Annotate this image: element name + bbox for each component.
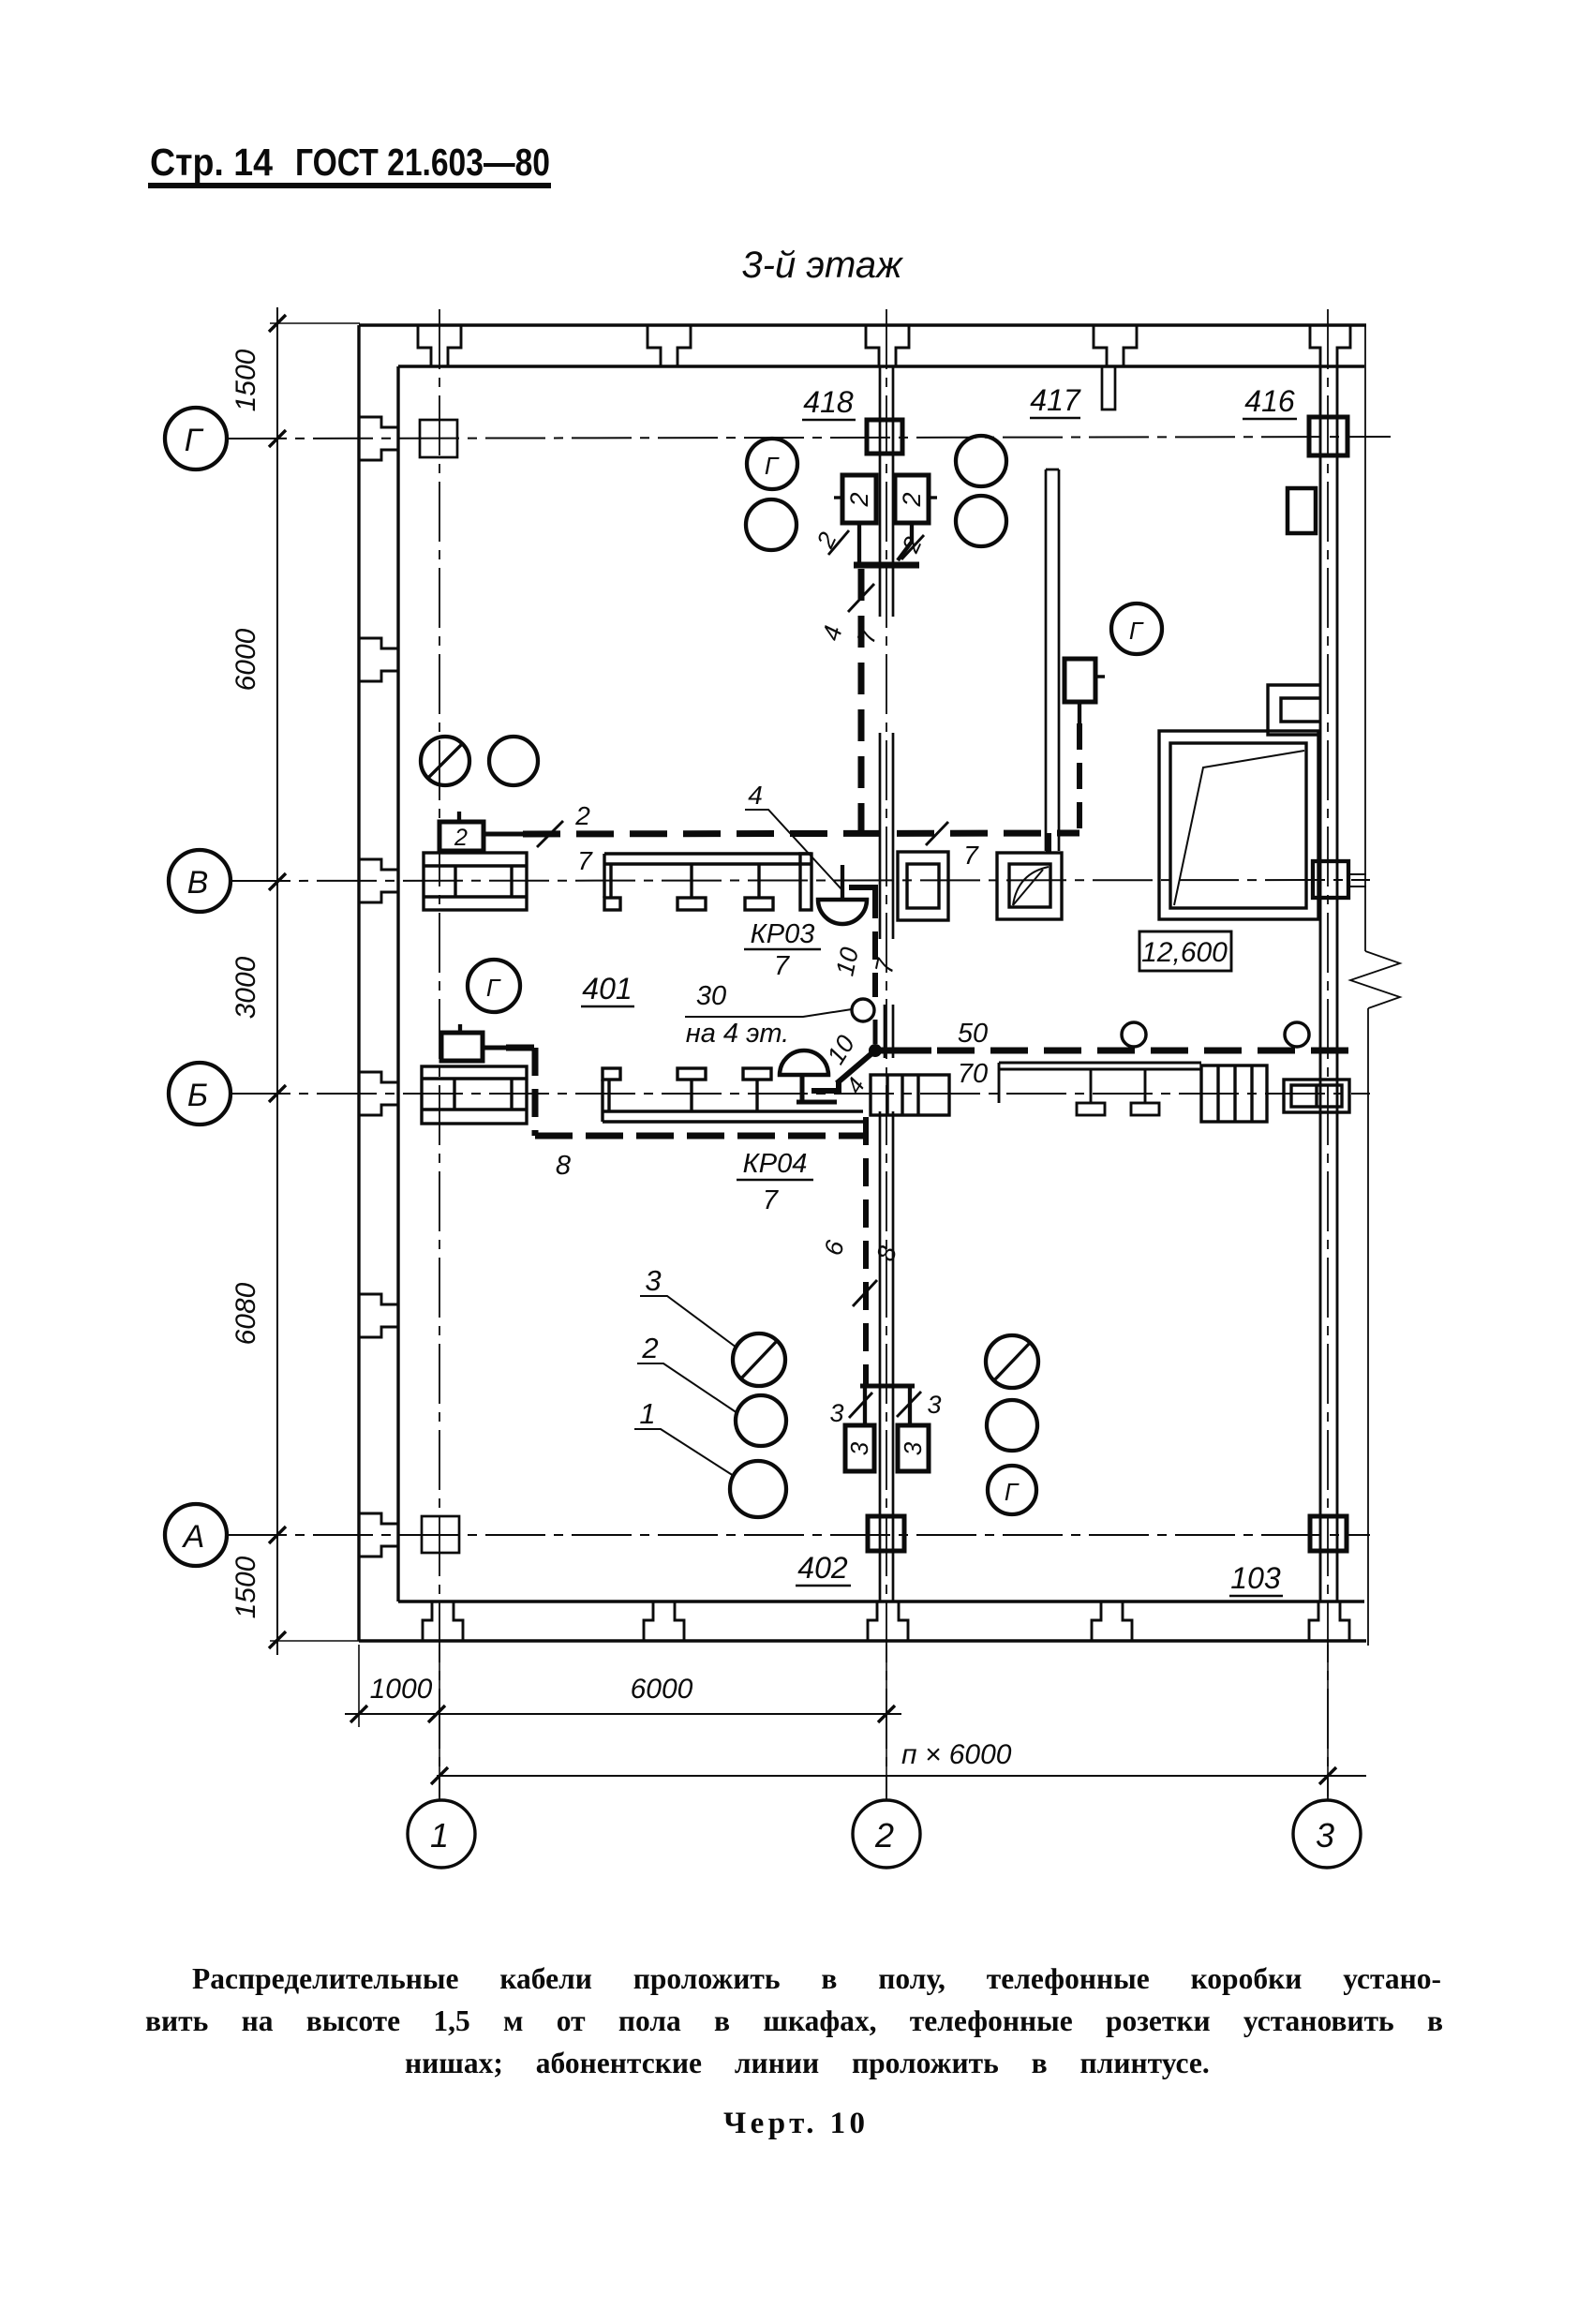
room 402 crossed lamp [986,1335,1038,1388]
axis circle Б [169,1063,231,1125]
svg-text:50: 50 [958,1019,988,1049]
svg-text:А: А [182,1519,205,1555]
svg-text:КР03: КР03 [751,919,815,949]
svg-text:8: 8 [556,1151,571,1181]
phone box 2 left of riser [834,475,876,523]
niche above elevator room [1268,685,1320,735]
svg-text:7: 7 [763,1185,780,1215]
axis circle 3 [1293,1800,1361,1868]
radiator at Б axis room 401 [422,1066,527,1124]
open circles on cable 50 [1122,1022,1146,1047]
svg-text:ГОСТ 21.603—80: ГОСТ 21.603—80 [295,141,550,184]
svg-text:2: 2 [874,1816,894,1855]
axis circle Г [165,408,227,469]
svg-text:4: 4 [841,1073,871,1098]
room 418 lamp circle [746,499,796,550]
svg-text:7: 7 [577,846,593,875]
svg-text:на 4 эт.: на 4 эт. [686,1019,789,1049]
svg-text:3: 3 [927,1391,941,1419]
radiator at Б axis3 [1284,1080,1349,1112]
cable 6 dashed down to 402 [863,1117,869,1384]
grid line 2 [886,309,887,1799]
wall on axis 2 [880,366,893,1601]
header bar joining leads [854,562,919,569]
svg-text:Г: Г [765,452,780,480]
radiator at Б right of axis2 [871,1075,949,1115]
column box axis3-В [1313,861,1366,898]
cable 2 horizontal dashed [523,833,1079,834]
svg-text:Б: Б [187,1078,208,1113]
svg-text:2: 2 [811,528,842,553]
bottom wall window piers [423,1601,1349,1641]
connection box КР03 dome [818,865,867,924]
svg-text:В: В [187,865,209,901]
stub drop to window niche [1046,833,1051,853]
svg-text:Г: Г [185,423,204,458]
right section cut line with break [1350,325,1400,1646]
outer walls [359,325,1366,1641]
dim ticks left [269,315,286,1648]
svg-text:Черт. 10: Черт. 10 [723,2107,865,2140]
slash on cable 4 [848,584,874,612]
lead + dashed drop from 417 box [1078,702,1081,828]
partition stub under pier 417 [1102,366,1115,410]
room 402 circle Г [988,1466,1036,1514]
svg-text:418: 418 [803,385,854,419]
svg-text:Распределительные кабели проло: Распределительные кабели проложить в пол… [192,1962,1441,1995]
phone box 3 right [898,1425,929,1471]
svg-text:Стр. 14: Стр. 14 [150,141,273,184]
bottom dimension line 2 [431,1767,1366,1784]
svg-text:103: 103 [1230,1561,1281,1595]
svg-text:КР04: КР04 [743,1149,808,1179]
svg-text:3: 3 [829,1399,843,1427]
svg-text:2: 2 [641,1332,658,1364]
svg-text:7: 7 [852,625,883,647]
svg-text:70: 70 [958,1059,988,1089]
elevator room [1159,731,1318,919]
svg-text:2: 2 [574,801,590,830]
partition wall 417/416 [1046,469,1059,851]
axis circle А [165,1504,227,1566]
svg-text:4: 4 [817,623,848,644]
slash + labels 6/8 [853,1280,877,1306]
wall on axis 3 [1320,366,1337,1601]
svg-text:6: 6 [819,1237,850,1259]
radiator/niche at В right of axis2 [898,852,948,920]
room labels [582,383,1295,1595]
axis circle 2 [853,1800,920,1868]
svg-text:417: 417 [1030,383,1081,417]
header underline [148,183,551,188]
cable 50 to the right [875,1048,1354,1054]
room 418 ceiling-rose circle Г [747,439,797,489]
svg-text:402: 402 [797,1551,848,1585]
phone box 2 right of riser [895,475,937,523]
svg-text:3: 3 [899,1441,927,1455]
room 417 circle Г [1111,603,1162,654]
svg-text:1: 1 [430,1816,449,1855]
svg-text:п × 6000: п × 6000 [901,1739,1012,1770]
svg-text:2: 2 [845,492,873,507]
tee to boxes 3 [860,1386,915,1425]
column box axis2-А [868,1516,904,1551]
radiator at В axis room 401 [424,853,527,910]
left dimension line [276,307,278,1655]
room 401 circle Г [468,960,520,1012]
svg-text:1500: 1500 [231,1556,261,1618]
bottom dimension line 1 [345,1706,901,1722]
room 402-left lamp low [730,1461,786,1517]
top wall window piers [418,325,1350,366]
svg-text:401: 401 [582,972,632,1006]
open circle riser to 4th floor [852,999,874,1021]
note paragraph [145,1962,1443,2140]
diagonal cable node to КР04 [811,1050,875,1091]
slashes + 3 labels [849,1392,921,1418]
phone box 3 left [845,1425,874,1471]
svg-text:2: 2 [898,492,926,507]
svg-text:7: 7 [963,841,979,870]
bench row at Б axis left [603,1068,863,1122]
svg-text:416: 416 [1244,384,1295,418]
cable 8 dashed route [506,1048,866,1136]
axis circle 1 [408,1800,475,1868]
svg-text:3-й этаж: 3-й этаж [741,245,903,286]
room 401 lamp circle [489,737,538,785]
grid line 3 [1327,309,1329,1799]
room 416 socket niche [1288,488,1316,533]
room 417 lamp circle 1 [956,436,1006,486]
svg-text:3: 3 [1316,1816,1334,1855]
page header [150,141,550,184]
callout labels 3 2 1 [639,1264,661,1430]
grid line А [227,1534,1370,1536]
riser cable 4 vertical dashed [858,569,865,832]
room 402-left crossed lamp [733,1333,785,1386]
svg-text:1: 1 [639,1397,655,1430]
slash + 7 label near 417 drop [926,822,948,845]
box 2 in room 401 [439,812,525,851]
room 401 crossed lamp circle [421,737,469,785]
phone box in 417 [1064,659,1105,702]
svg-text:7: 7 [774,951,791,981]
column box axis3-Г [1309,417,1347,455]
junction node [873,1020,878,1044]
svg-text:1500: 1500 [231,349,261,411]
slashes + small 2 labels at leads [828,530,924,559]
svg-text:Г: Г [1005,1478,1020,1506]
cable 10 from КР03 down [849,887,875,997]
svg-text:3: 3 [845,1441,873,1455]
room 402 lamp [987,1400,1037,1451]
box in 401 at Б [441,1024,506,1061]
svg-text:Г: Г [1129,617,1144,645]
column box axis2-Г [867,420,902,454]
window niche at В in 417 [997,853,1062,919]
svg-text:вить на высоте 1,5 м от пола в: вить на высоте 1,5 м от пола в шкафах, т… [145,2004,1443,2037]
svg-text:3: 3 [645,1264,661,1297]
left dimension labels [231,349,261,1618]
svg-text:6000: 6000 [631,1674,693,1705]
svg-text:1000: 1000 [370,1674,433,1705]
bench row at В axis [604,854,811,910]
connection box КР04 dome [780,1050,837,1103]
leads from boxes 2 [859,523,912,562]
left wall window piers [359,417,398,1557]
svg-text:10: 10 [830,945,864,978]
svg-text:3000: 3000 [231,956,261,1019]
grid line В [231,880,1370,881]
level mark 12,600 [1139,931,1231,971]
svg-text:Г: Г [486,974,501,1002]
axis circle В [169,850,231,912]
svg-text:2: 2 [454,825,468,851]
svg-text:6000: 6000 [231,628,261,691]
svg-text:нишах; абонентские линии проло: нишах; абонентские линии проложить в пли… [405,2047,1210,2079]
svg-text:30: 30 [696,981,726,1011]
grid line Г [227,437,1391,439]
svg-text:4: 4 [748,781,763,810]
shelf unit at Б right [1201,1065,1267,1122]
grid line 1 [439,309,440,1799]
slash + 2/7 label on cable 2 [537,821,563,847]
bench row at Б right [999,1063,1201,1115]
svg-text:6080: 6080 [231,1282,261,1345]
bottom dimension extension lines [359,1645,1328,1796]
column box axis3-А [1310,1516,1347,1551]
column axis1-А [422,1516,459,1553]
extension lines top/bottom left corner [270,322,360,324]
room 402-left lamp [736,1395,786,1446]
column axis1-Г [420,420,457,457]
grid line Б [231,1093,1370,1095]
svg-text:12,600: 12,600 [1141,937,1228,968]
room 417 lamp circle 2 [956,496,1006,546]
